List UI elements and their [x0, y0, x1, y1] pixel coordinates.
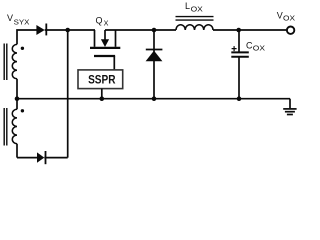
- svg-text:OX: OX: [253, 44, 265, 53]
- capacitor C1 Cox label with + polarity: [246, 40, 265, 52]
- op-amp U1 SSPR controller block: [78, 70, 123, 89]
- wire SSPR box to ground rail: [101, 89, 103, 99]
- node junction dot SSPR on ground rail: [100, 96, 105, 101]
- transistor Q1 label Qx: [96, 15, 109, 27]
- inductor T1 secondary winding (bottom): [12, 99, 17, 158]
- transistor Q1 Qx power MOSFET: [90, 30, 120, 56]
- T1 core lines (bottom winding): [4, 108, 7, 146]
- wire ground return rail: [17, 98, 290, 100]
- wire from winding T1 top to diode D1 anode: [17, 30, 37, 44]
- T1 core lines (top winding): [4, 44, 7, 81]
- node T1 top winding polarity dot: [21, 47, 24, 50]
- diode D1 input rectifier: [36, 24, 46, 36]
- diode D3 reset rectifier: [37, 151, 46, 164]
- svg-text:SSPR: SSPR: [88, 72, 116, 86]
- inductor T1 primary winding (top): [12, 44, 17, 98]
- node junction dot Cox bottom on ground rail: [237, 96, 242, 101]
- svg-text:V: V: [7, 13, 13, 23]
- wire D1 cathode to Qx drain (top rail): [45, 29, 95, 31]
- svg-text:V: V: [277, 11, 283, 21]
- node junction dot top rail at reset branch: [65, 28, 70, 33]
- svg-text:L: L: [185, 1, 190, 11]
- node Vox output label: [277, 11, 295, 23]
- svg-text:SYX: SYX: [14, 18, 30, 27]
- svg-text:OX: OX: [191, 5, 203, 14]
- wire Lox to output terminal Vox: [213, 29, 286, 31]
- node VSYX input label: [7, 13, 30, 27]
- wire reset branch vertical (top rail to bottom winding rail): [67, 30, 69, 158]
- capacitor C1 Cox output filter: [231, 30, 249, 99]
- wire Qx source to inductor Lox (top rail right): [105, 29, 176, 31]
- node T1 bottom winding polarity dot: [21, 109, 24, 112]
- diode D2 freewheeling: [146, 30, 163, 99]
- inductor L1 label Lox: [185, 1, 203, 14]
- wire D3 cathode to reset branch corner: [44, 157, 67, 159]
- node junction dot top rail at diode D2: [152, 28, 157, 33]
- wire Qx gate to SSPR box: [113, 56, 115, 69]
- svg-text:Q: Q: [96, 15, 103, 25]
- node junction dot output at capacitor Cox: [236, 28, 241, 33]
- svg-text:OX: OX: [283, 14, 295, 23]
- svg-text:X: X: [104, 19, 109, 28]
- wire bottom winding to diode D3 anode: [17, 157, 37, 159]
- node junction dot windings center tap: [15, 96, 20, 101]
- node Vox output terminal circle: [287, 27, 294, 34]
- ground symbol: [283, 99, 296, 115]
- node junction dot D2 bottom on ground rail: [152, 96, 157, 101]
- inductor L1 Lox output choke: [176, 17, 214, 30]
